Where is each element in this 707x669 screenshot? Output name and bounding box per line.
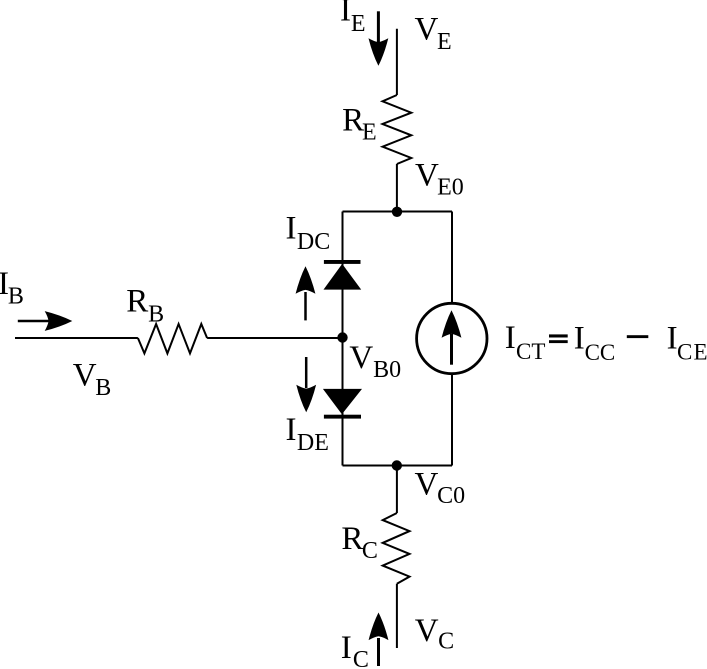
- node VE0 dot: [392, 207, 402, 217]
- arrow I_C head: [369, 613, 389, 641]
- current source arrow shaft: [450, 334, 453, 365]
- wire box left edge (diode branch): [342, 212, 344, 466]
- arrow I_DC shaft: [304, 292, 307, 320]
- svg-text:V: V: [415, 12, 439, 48]
- svg-text:CE: CE: [677, 340, 707, 365]
- svg-text:I: I: [574, 321, 585, 357]
- svg-text:CC: CC: [585, 340, 616, 365]
- resistor R_E: [383, 95, 412, 164]
- arrow I_DC head: [296, 266, 316, 294]
- wire R_E to node VE0: [396, 164, 398, 212]
- svg-text:I: I: [286, 412, 297, 448]
- wire box bottom edge: [343, 465, 453, 467]
- svg-text:I: I: [340, 0, 351, 29]
- svg-text:I: I: [286, 211, 297, 247]
- current source arrowhead: [442, 310, 462, 338]
- svg-text:I: I: [505, 320, 516, 356]
- diode DC (upper) cathode bar: [324, 260, 361, 264]
- svg-text:E0: E0: [437, 174, 464, 200]
- resistor R_C: [383, 513, 410, 584]
- arrow I_C shaft: [377, 638, 380, 666]
- wire node VC0 down: [396, 466, 398, 514]
- svg-text:DE: DE: [297, 430, 329, 456]
- svg-text:V: V: [415, 467, 439, 503]
- svg-text:CT: CT: [516, 339, 545, 364]
- svg-text:V: V: [415, 613, 439, 649]
- arrow I_DE head: [296, 385, 316, 413]
- svg-text:V: V: [415, 158, 439, 194]
- svg-text:E: E: [351, 11, 366, 37]
- svg-text:B: B: [148, 302, 164, 328]
- arrow I_DE shaft: [305, 357, 308, 388]
- node VB0 dot: [337, 332, 347, 342]
- arrow I_E shaft: [377, 11, 380, 44]
- resistor R_B: [138, 324, 207, 353]
- svg-text:R: R: [341, 521, 363, 557]
- svg-text:I: I: [667, 321, 678, 357]
- diode DE (lower) cathode bar: [324, 415, 361, 419]
- diode DE (lower) triangle: [323, 389, 362, 414]
- wire R_C to bottom: [396, 584, 398, 648]
- svg-text:C: C: [353, 647, 369, 669]
- wire R_B to node VB0: [207, 337, 342, 339]
- wire box right edge (source branch): [451, 212, 453, 466]
- wire box top edge: [343, 211, 453, 213]
- svg-text:B: B: [95, 375, 111, 401]
- svg-text:I: I: [341, 630, 352, 666]
- minus sign: [627, 335, 649, 338]
- current source U1 circle: [417, 303, 487, 373]
- arrow I_B shaft: [18, 320, 50, 322]
- svg-text:C0: C0: [437, 483, 465, 509]
- svg-text:R: R: [342, 103, 364, 139]
- svg-text:C: C: [438, 628, 454, 654]
- arrow I_B head: [45, 311, 73, 331]
- svg-text:C: C: [362, 538, 378, 564]
- svg-text:B0: B0: [373, 357, 401, 383]
- svg-text:R: R: [126, 284, 148, 320]
- svg-text:E: E: [437, 29, 452, 55]
- svg-text:DC: DC: [297, 229, 330, 255]
- wire base from left: [15, 337, 138, 339]
- wire emitter top: [396, 29, 398, 95]
- svg-text:B: B: [8, 284, 24, 310]
- svg-text:V: V: [73, 358, 97, 394]
- svg-text:V: V: [349, 340, 373, 376]
- node VC0 dot: [392, 460, 402, 470]
- diode DC (upper) triangle: [324, 264, 362, 290]
- svg-text:E: E: [362, 120, 377, 146]
- arrow I_E head: [369, 38, 389, 66]
